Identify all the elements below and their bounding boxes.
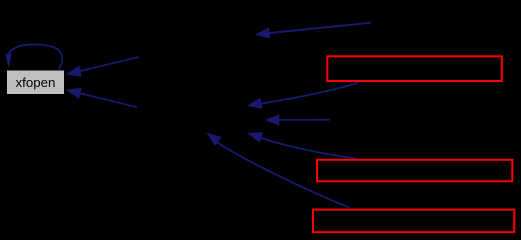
edge D from truncated node box2 to hidden node M2 xyxy=(247,132,357,159)
truncated node box3 (red) xyxy=(313,210,514,233)
self-loop edge xfopen to xfopen xyxy=(5,44,62,69)
edge from hidden node M2 to xfopen xyxy=(66,88,137,108)
edge B from truncated node box1 to hidden node M2 xyxy=(247,82,359,109)
truncated node box1 (red) xyxy=(327,56,502,81)
truncated node box2 (red) xyxy=(317,160,512,182)
svg-text:xfopen: xfopen xyxy=(16,75,56,90)
edge A from hidden right node to hidden node M1 xyxy=(255,23,372,39)
node xfopen xyxy=(7,70,65,95)
edge E long curve from truncated node box3 to hidden node M2 xyxy=(206,133,350,208)
edge from hidden node M1 to xfopen xyxy=(66,57,139,77)
edge C horizontal from hidden right node to hidden node M2 xyxy=(265,115,330,126)
